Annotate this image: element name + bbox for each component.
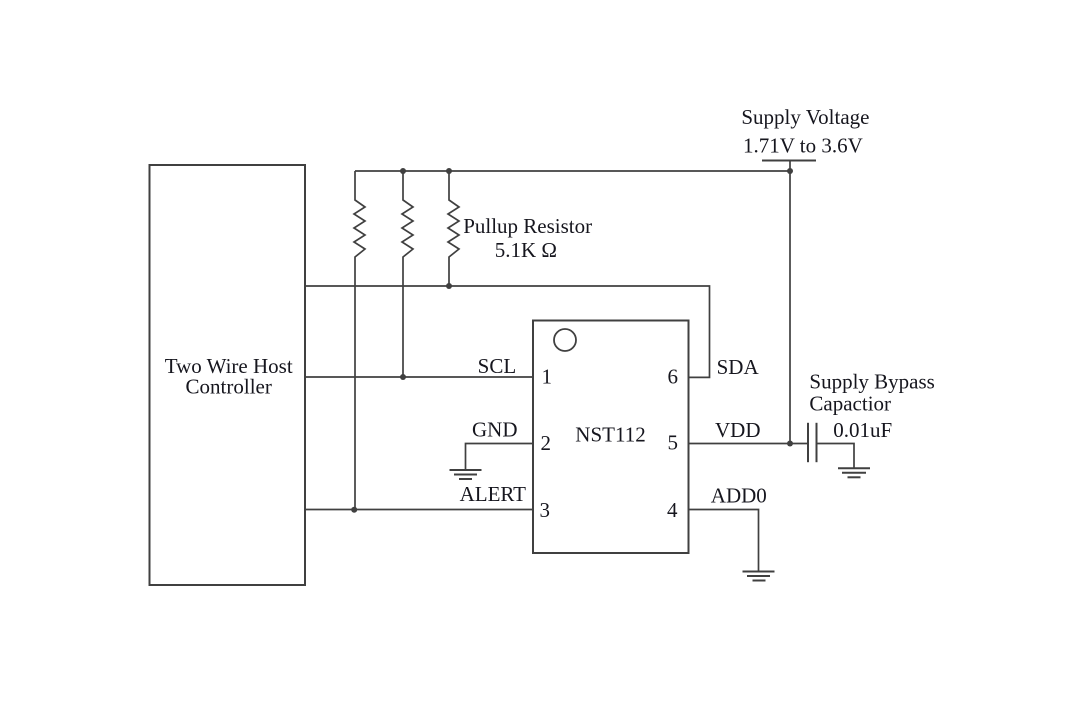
supply voltage rail tick: [762, 160, 816, 162]
ground at GND pin: [450, 470, 482, 479]
wire supply drop vertical: [789, 161, 791, 444]
svg-text:ADD0: ADD0: [711, 484, 767, 508]
IC pin-1 marker circle: [554, 329, 576, 351]
host controller box: [150, 165, 306, 585]
wire ALERT: [305, 509, 533, 511]
IC U1 NST112 box: [533, 321, 689, 554]
svg-text:SCL: SCL: [478, 354, 517, 378]
wire SCL: [305, 376, 533, 378]
svg-text:Pullup Resistor: Pullup Resistor: [463, 214, 592, 238]
resistor R2: [402, 171, 413, 377]
ground at capacitor: [838, 468, 870, 477]
svg-text:SDA: SDA: [717, 355, 760, 379]
capacitor C1 plates: [808, 423, 817, 462]
svg-text:3: 3: [540, 498, 551, 522]
svg-text:4: 4: [667, 498, 678, 522]
wire ADD0 pin 4 stub: [689, 510, 759, 572]
junction dot R2 on SCL: [400, 374, 406, 380]
resistor R1: [354, 171, 365, 510]
svg-text:Supply Bypass: Supply Bypass: [809, 370, 934, 394]
svg-text:ALERT: ALERT: [460, 482, 527, 506]
wire GND pin 2 stub: [466, 444, 534, 471]
svg-text:0.01uF: 0.01uF: [833, 418, 892, 442]
junction dot R3 on SDA net: [446, 283, 452, 289]
wire host to SDA (net SDA): [305, 286, 710, 377]
svg-text:1: 1: [542, 365, 553, 389]
svg-text:Capactior: Capactior: [809, 392, 891, 416]
junction dot supply top: [787, 168, 793, 174]
svg-text:Controller: Controller: [186, 375, 272, 399]
junction dot top rail R3: [446, 168, 452, 174]
svg-text:5.1K Ω: 5.1K Ω: [495, 238, 557, 262]
svg-text:GND: GND: [472, 418, 518, 442]
svg-text:6: 6: [668, 365, 679, 389]
wire top rail: [355, 170, 790, 172]
svg-text:Supply Voltage: Supply Voltage: [741, 105, 869, 129]
junction dot top rail R2: [400, 168, 406, 174]
resistor R3: [448, 171, 459, 286]
wire capacitor to ground: [817, 444, 855, 469]
ground at ADD0: [743, 572, 775, 581]
svg-text:VDD: VDD: [715, 418, 761, 442]
junction dot R1 on ALERT: [351, 507, 357, 513]
svg-text:1.71V to 3.6V: 1.71V to 3.6V: [743, 134, 863, 158]
junction dot VDD: [787, 441, 793, 447]
svg-text:2: 2: [541, 431, 552, 455]
wire VDD pin 5: [689, 443, 809, 445]
svg-text:NST112: NST112: [575, 423, 645, 447]
svg-text:5: 5: [668, 431, 679, 455]
